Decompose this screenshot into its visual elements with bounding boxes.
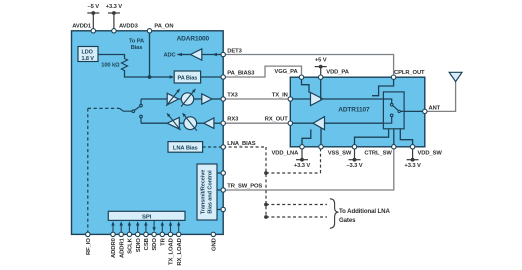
svg-text:1.8 V: 1.8 V bbox=[82, 56, 95, 62]
svg-text:Transmit/Receive: Transmit/Receive bbox=[200, 170, 206, 214]
svg-text:Bias and Control: Bias and Control bbox=[208, 170, 214, 214]
svg-text:ADC: ADC bbox=[163, 53, 175, 59]
svg-text:CTRL_SW: CTRL_SW bbox=[364, 150, 392, 156]
svg-text:Gates: Gates bbox=[339, 217, 356, 224]
svg-text:RX3: RX3 bbox=[227, 117, 239, 123]
svg-text:To Additional LNA: To Additional LNA bbox=[339, 208, 390, 215]
svg-text:–3.3 V: –3.3 V bbox=[346, 163, 362, 169]
svg-text:100 kΩ: 100 kΩ bbox=[101, 63, 120, 69]
svg-text:ADAR1000: ADAR1000 bbox=[177, 36, 210, 43]
svg-text:–5 V: –5 V bbox=[88, 4, 100, 10]
svg-text:VSS_SW: VSS_SW bbox=[328, 150, 352, 156]
svg-text:TX_LOAD: TX_LOAD bbox=[169, 238, 175, 265]
svg-text:Bias: Bias bbox=[131, 45, 143, 51]
svg-text:+3.3 V: +3.3 V bbox=[294, 163, 311, 169]
svg-text:CPLR_OUT: CPLR_OUT bbox=[394, 70, 425, 76]
svg-text:To PA: To PA bbox=[129, 39, 144, 45]
svg-text:SCLK: SCLK bbox=[128, 237, 134, 253]
svg-text:VDD_PA: VDD_PA bbox=[326, 70, 349, 76]
svg-text:TR: TR bbox=[160, 237, 166, 245]
svg-text:AVDD1: AVDD1 bbox=[72, 23, 92, 29]
svg-text:ADDR1: ADDR1 bbox=[119, 237, 125, 258]
svg-text:LNA Bias: LNA Bias bbox=[173, 145, 198, 151]
svg-text:VDD_SW: VDD_SW bbox=[418, 150, 443, 156]
svg-text:LDO: LDO bbox=[82, 49, 94, 55]
svg-text:PA_BIAS3: PA_BIAS3 bbox=[227, 71, 255, 77]
svg-text:AVDD3: AVDD3 bbox=[119, 23, 139, 29]
svg-text:GND: GND bbox=[211, 238, 217, 251]
svg-text:+5 V: +5 V bbox=[315, 57, 327, 63]
svg-text:TX_IN: TX_IN bbox=[272, 92, 288, 98]
svg-text:ADDR0: ADDR0 bbox=[111, 237, 117, 258]
svg-text:SPI: SPI bbox=[142, 214, 152, 220]
svg-text:+3.3 V: +3.3 V bbox=[106, 4, 123, 10]
svg-text:VDD_LNA: VDD_LNA bbox=[272, 150, 300, 156]
svg-text:PA_ON: PA_ON bbox=[154, 23, 173, 29]
svg-text:LNA_BIAS: LNA_BIAS bbox=[227, 141, 255, 147]
svg-text:SDO: SDO bbox=[152, 238, 158, 251]
svg-text:PA Bias: PA Bias bbox=[177, 76, 197, 82]
svg-text:TR_SW_POS: TR_SW_POS bbox=[227, 184, 262, 190]
svg-text:ADTR1107: ADTR1107 bbox=[338, 107, 370, 114]
svg-text:ANT: ANT bbox=[429, 106, 441, 112]
svg-text:CSB: CSB bbox=[144, 238, 150, 250]
svg-text:RX_OUT: RX_OUT bbox=[265, 117, 288, 123]
svg-text:+3.3 V: +3.3 V bbox=[404, 163, 421, 169]
svg-text:VGG_PA: VGG_PA bbox=[274, 69, 298, 75]
svg-text:RF_IO: RF_IO bbox=[86, 238, 92, 255]
svg-text:DET3: DET3 bbox=[227, 48, 242, 54]
svg-text:RX_LOAD: RX_LOAD bbox=[177, 238, 183, 265]
svg-text:TX3: TX3 bbox=[227, 92, 238, 98]
svg-text:SDIO: SDIO bbox=[136, 238, 142, 253]
